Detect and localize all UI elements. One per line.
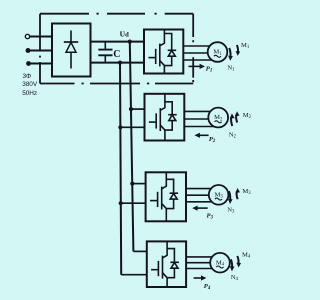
inverter U1 box <box>144 30 183 74</box>
motor M1 <box>208 42 228 62</box>
dashed enclosure right border <box>192 14 194 83</box>
arrow P1 (power right) <box>189 65 201 67</box>
motor M3 phase wires <box>186 189 215 202</box>
svg-text:C: C <box>113 49 120 60</box>
capacitor C top stem <box>104 42 106 50</box>
arrow M2 (torque up) <box>236 115 237 123</box>
motor M2 <box>208 108 228 128</box>
capacitor C bottom stem <box>104 55 106 62</box>
dashed enclosure left border <box>39 14 41 84</box>
wire terminal1 to rectifier <box>30 36 52 38</box>
IGBT U4 <box>151 241 179 287</box>
node: top rail to bus B <box>128 40 132 44</box>
node bus A row2 tap <box>118 125 122 129</box>
dashed enclosure bottom border <box>40 83 193 85</box>
arrow N4 (speed down) <box>231 259 232 268</box>
wire bus B to inverter U2 <box>131 108 145 110</box>
wire bus B to inverter U3 <box>132 183 145 185</box>
svg-text:3Φ: 3Φ <box>23 73 32 80</box>
wire bus B end to inverter U4 <box>133 250 146 252</box>
rectifier diode lead bottom <box>70 52 72 68</box>
input terminal 2 (filled) <box>26 48 31 53</box>
IGBT U3 <box>150 172 178 221</box>
capacitor C bottom plate <box>98 54 112 56</box>
motor M4 phase wires <box>186 257 216 269</box>
wire bus A to inverter U2 <box>120 126 144 128</box>
IGBT U2 <box>149 94 177 141</box>
DC bus top rail <box>91 41 145 43</box>
input terminal 1 (open circle) <box>25 34 29 38</box>
inverter U4 box <box>147 241 186 287</box>
bus B vertical feeder <box>130 42 134 252</box>
wire terminal3 to rectifier <box>31 63 53 65</box>
DC bus bottom rail <box>91 62 145 64</box>
arrow M3 (torque up) <box>237 191 238 199</box>
IGBT U1 <box>148 30 176 74</box>
rectifier diode triangle <box>66 42 76 52</box>
wire bus A end to inverter U4 <box>121 274 147 276</box>
svg-text:Ud: Ud <box>120 30 129 39</box>
node: bottom rail to bus A <box>118 61 122 65</box>
wire bus A to inverter U3 <box>121 202 146 204</box>
node bus A row3 tap <box>119 201 123 205</box>
arrow M1 (torque down) <box>237 45 238 53</box>
capacitor C top plate <box>98 49 112 51</box>
node bus B row3 tap <box>130 182 134 186</box>
inverter U3 box <box>146 172 186 221</box>
wire terminal2 to rectifier <box>30 50 52 52</box>
svg-text:380V: 380V <box>22 81 38 88</box>
arrow N1 (speed down) <box>229 48 230 57</box>
rectifier box <box>52 24 91 77</box>
arrow N3 (speed down) <box>229 191 230 200</box>
arrow P4 (power right) <box>194 277 202 279</box>
arrow M4 (torque down) <box>237 256 238 264</box>
rectifier diode cathode bar <box>64 41 78 43</box>
motor M2 phase wires <box>184 111 215 126</box>
node bus B row2 tap <box>129 107 133 111</box>
arrow P3 (power left) <box>197 207 208 209</box>
arrow N2 (speed up) <box>231 117 232 126</box>
bus A vertical feeder <box>120 63 121 275</box>
input terminal 3 (filled) <box>26 61 31 66</box>
motor M3 <box>209 185 229 205</box>
inverter U2 box <box>145 94 185 141</box>
arrow P2 (power left) <box>199 134 208 136</box>
svg-text:50Hz: 50Hz <box>22 90 37 97</box>
dashed enclosure top border <box>40 13 193 15</box>
motor M4 <box>210 253 230 273</box>
rectifier diode lead top <box>70 31 72 43</box>
motor M1 phase wires <box>183 46 214 60</box>
